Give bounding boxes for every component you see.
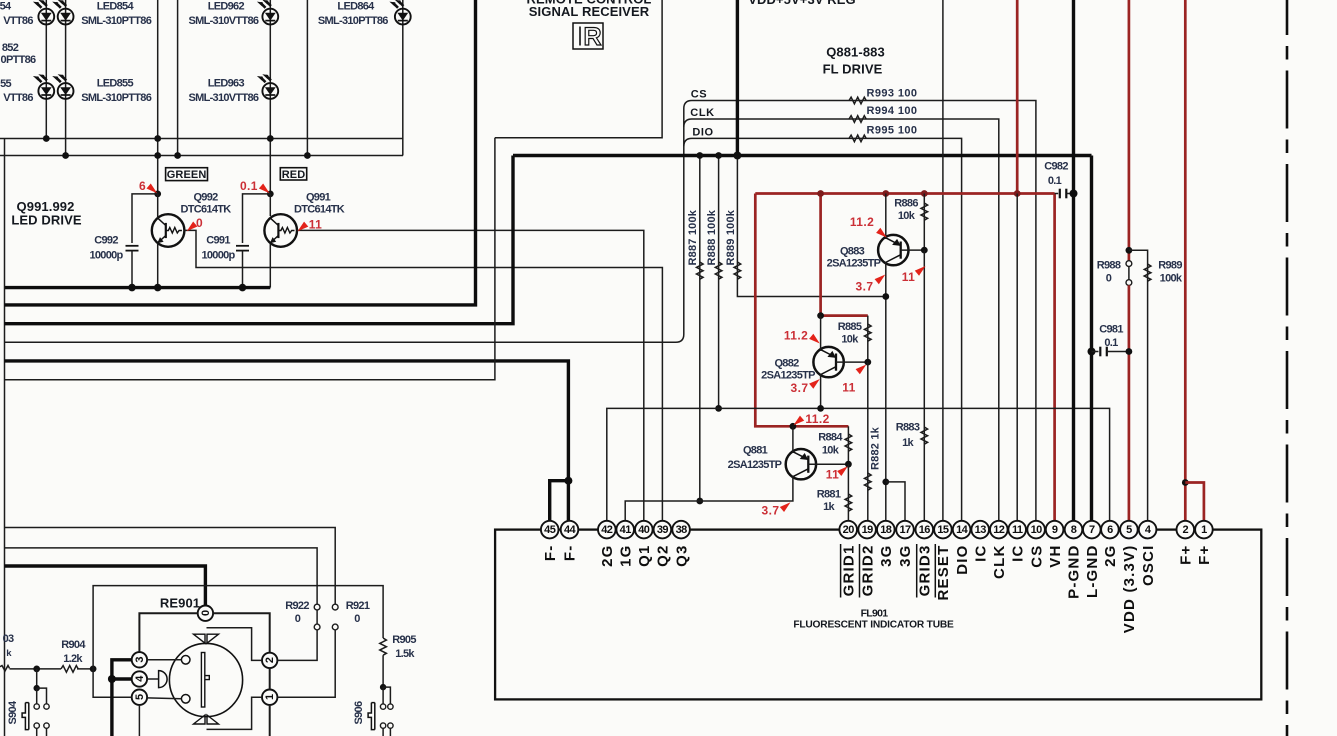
resistor R989 100k [1129, 250, 1148, 522]
svg-text:CLK: CLK [991, 545, 1008, 579]
encoder contact upper [181, 656, 190, 665]
pin 18 [877, 521, 895, 539]
pin 2 [1177, 521, 1195, 539]
encoder commutator bar [201, 653, 204, 708]
wire: node down to pin5 [93, 669, 132, 697]
svg-text:LED854: LED854 [97, 1, 135, 13]
svg-text:R884: R884 [818, 432, 843, 444]
svg-text:Q883: Q883 [840, 246, 865, 258]
wire: 11V dark red rail [755, 192, 1054, 195]
wire: main ground bus (thick) [513, 154, 1092, 157]
wire: pin3 to contact [147, 659, 181, 661]
svg-text:L-GND: L-GND [1084, 545, 1101, 599]
svg-text:7: 7 [1089, 524, 1095, 536]
resistor R988 0 (jumper) [1126, 261, 1132, 267]
svg-text:F+: F+ [1178, 545, 1195, 565]
wire: pin1 to R921 [277, 630, 335, 698]
node: junction line2 x307 [304, 152, 311, 159]
svg-text:DTC614TK: DTC614TK [294, 204, 345, 216]
svg-text:SIGNAL RECEIVER: SIGNAL RECEIVER [529, 4, 650, 19]
svg-text:GREEN: GREEN [167, 169, 207, 181]
wire: encoder pin0 feed (thick) [5, 566, 206, 606]
resistor R888 100k [718, 156, 720, 409]
svg-text:R905: R905 [392, 634, 416, 646]
svg-text:R995 100: R995 100 [867, 125, 918, 137]
svg-text:SML-310VTT86: SML-310VTT86 [188, 15, 258, 27]
svg-text:VDD+5V+3V REG: VDD+5V+3V REG [748, 0, 856, 7]
encoder rotation arrow top [194, 634, 219, 643]
svg-text:18: 18 [880, 524, 892, 536]
svg-text:11: 11 [309, 218, 323, 232]
svg-text:IC: IC [1009, 545, 1026, 562]
node: rail dot C991 [239, 284, 247, 292]
svg-text:40: 40 [638, 524, 650, 536]
wire: Q992 emitter to rail [157, 244, 159, 288]
wire: Q881 collector to 1G line [625, 476, 793, 522]
wire: Q883 base to R886 node [901, 249, 925, 251]
svg-text:CS: CS [1028, 545, 1045, 568]
wire: 3G hook to pin17 [886, 482, 905, 522]
encoder rotation arrow bottom [194, 715, 219, 724]
svg-text:R889 100k: R889 100k [725, 209, 737, 265]
svg-text:GRID3: GRID3 [917, 545, 934, 597]
wire: DIO/CLK/CS harness to left (bus line 4) [5, 101, 1036, 522]
svg-text:Q2: Q2 [655, 545, 672, 567]
wire: Q883 collector down to pin18 [885, 262, 887, 522]
svg-text:1: 1 [1201, 524, 1207, 536]
resistor R993 100 [849, 97, 866, 104]
svg-text:0: 0 [1106, 273, 1112, 285]
pin 6 [1101, 521, 1119, 539]
wire: LED962/963 column to Q991 [269, 0, 271, 194]
resistor R903 1k (clipped) [0, 666, 10, 672]
node: junction line1 x157 [154, 135, 161, 142]
node: dark red dot Q881 emitter [790, 423, 797, 430]
node: C981 right dot [1126, 348, 1133, 355]
svg-text:0: 0 [354, 613, 360, 625]
svg-text:SML-310PTT86: SML-310PTT86 [318, 15, 388, 27]
pin 40 [635, 521, 653, 539]
svg-text:0.1: 0.1 [1048, 175, 1062, 187]
svg-text:R883: R883 [896, 422, 920, 434]
svg-text:12: 12 [993, 524, 1005, 536]
wire: L-GND thick bus corner down to pin7 [1090, 156, 1093, 522]
svg-text:LED962: LED962 [208, 1, 245, 13]
node: R989 branch dot [1126, 247, 1133, 254]
svg-text:3G: 3G [878, 545, 895, 567]
wire: R903 to R904 [10, 668, 62, 670]
node: Q992 collector junction [154, 191, 161, 198]
wire: dark red Q882 feed horizontal [821, 314, 868, 317]
svg-text:11: 11 [1012, 524, 1023, 536]
encoder pin 2 [262, 653, 277, 668]
svg-text:Q881-883: Q881-883 [826, 45, 885, 60]
svg-text:11.2: 11.2 [805, 412, 829, 426]
svg-text:C982: C982 [1044, 161, 1068, 173]
svg-text:5: 5 [134, 694, 146, 700]
wire: pin2 to R922 [277, 630, 317, 661]
switch S906 [380, 684, 386, 690]
svg-text:16: 16 [919, 524, 931, 536]
wire: C991 to emitter rail [242, 251, 244, 288]
svg-text:SML-310VTT86: SML-310VTT86 [188, 92, 258, 104]
svg-text:LED864: LED864 [337, 1, 375, 13]
LED LED962 [257, 0, 278, 25]
resistor R887 100k [699, 156, 701, 502]
resistor R881 1k (base to pin20) [847, 464, 849, 522]
wire: pin1 contact L path [207, 697, 263, 729]
node: junction line2 x65 [62, 152, 69, 159]
pin 12 [990, 521, 1008, 539]
box: FL901 fluorescent indicator tube [495, 530, 1261, 700]
wire: VDD dark red to pin5 [1128, 285, 1131, 522]
svg-text:LED DRIVE: LED DRIVE [11, 213, 81, 228]
resistor R904 1.2k [61, 666, 78, 673]
LED LED855a (row2 left) [33, 74, 54, 99]
wire: thick branch to pins 3/4 [112, 660, 132, 736]
svg-text:OSCI: OSCI [1140, 545, 1157, 586]
wire: pin4 to cam [147, 678, 159, 680]
wire: LED common line 2 [0, 155, 403, 157]
wire: node up over to R905 [93, 586, 383, 669]
wire: Q883 emitter entry [885, 194, 887, 240]
wire: Q992 output to pin39 (Q2) [184, 230, 662, 521]
svg-text:0PTT86: 0PTT86 [1, 54, 37, 66]
node: Q883 collector/R889 dot [882, 293, 889, 300]
svg-text:15: 15 [937, 524, 949, 536]
svg-text:38: 38 [676, 524, 688, 536]
svg-text:44: 44 [564, 524, 577, 536]
resistor R905 1.5k [380, 638, 387, 655]
svg-text:RESET: RESET [935, 545, 952, 601]
svg-text:0: 0 [295, 613, 301, 625]
svg-text:11: 11 [842, 381, 856, 395]
pin 4 [1139, 521, 1157, 539]
node: dark red dot Q882 feed [817, 312, 824, 319]
switch S904 [36, 669, 38, 688]
wire: VDD 3.3V dark red from top [1128, 0, 1131, 261]
wire: bus line 2 (thick) with vertical riser x475 [5, 0, 476, 305]
svg-text:11: 11 [826, 468, 840, 482]
svg-text:10k: 10k [898, 210, 916, 222]
svg-text:1: 1 [264, 694, 276, 700]
resistor R882 1k (base to pin19) [867, 362, 869, 522]
svg-text:C991: C991 [206, 235, 230, 247]
wire: Q991 emitter to rail end [269, 244, 271, 288]
wire: C992 branch [132, 194, 158, 243]
resistor R883 1k (base to pin16) [923, 250, 925, 522]
svg-text:F+: F+ [1196, 545, 1213, 565]
encoder body circle [169, 643, 242, 716]
pin 5 [1120, 521, 1138, 539]
wire: pin5 down to edge [138, 705, 140, 736]
svg-text:6: 6 [139, 179, 146, 193]
box: remote control signal receiver [495, 0, 662, 138]
node: junction line1 x270 [267, 135, 274, 142]
label RED net box [280, 168, 306, 180]
svg-text:R886: R886 [894, 198, 918, 210]
node: R904/pin5 node dot [90, 666, 97, 673]
pin 45 [541, 521, 559, 539]
pin 42 [598, 521, 616, 539]
svg-text:LED855: LED855 [97, 78, 134, 90]
svg-text:9: 9 [1052, 524, 1058, 536]
wire: LED column A (LED854 pair left) [45, 0, 47, 139]
svg-text:F-: F- [562, 545, 579, 562]
wire: 2G line pin42 to pin6 [607, 408, 1110, 521]
svg-text:DIO: DIO [692, 127, 713, 139]
pin 38 [672, 521, 690, 539]
wire: LED column B (LED854 pair right) [65, 0, 67, 156]
svg-text:55: 55 [0, 78, 11, 90]
node: junction line2 x177 [174, 152, 181, 159]
svg-text:11.2: 11.2 [784, 329, 808, 343]
svg-text:0: 0 [196, 216, 203, 230]
svg-text:R922: R922 [285, 600, 309, 612]
encoder pin 0 [198, 606, 213, 621]
svg-text:2G: 2G [1102, 545, 1119, 567]
wire: bus line 3 (thick) riser x513 to main bus [5, 156, 514, 324]
svg-text:VDD (3.3V): VDD (3.3V) [1121, 545, 1138, 634]
wire: F- feed (thick) [5, 361, 569, 481]
svg-text:2SA1235TP: 2SA1235TP [827, 258, 881, 270]
svg-text:42: 42 [601, 524, 613, 536]
transistor Q883 2SA1235TP [878, 235, 908, 265]
svg-text:Q992: Q992 [193, 192, 218, 204]
label GREEN net box [166, 168, 208, 181]
wire: dark red drop to Q882 row [819, 194, 822, 316]
node: Q882 base dot [864, 359, 871, 366]
svg-text:2: 2 [264, 657, 276, 663]
wire: vertical x177 to line2 [177, 0, 179, 156]
pin 14 [953, 521, 971, 539]
wire: Q882 collector down to 2G line [820, 374, 822, 409]
svg-text:5: 5 [1126, 524, 1132, 536]
svg-text:CLK: CLK [690, 107, 714, 119]
wire: RESET line from top to pin15 [942, 0, 944, 522]
svg-text:39: 39 [657, 524, 669, 536]
pin 8 [1065, 521, 1083, 539]
LED LED853 (pair left, clipped label) [33, 0, 54, 25]
svg-text:2G: 2G [599, 545, 616, 567]
capacitor C991 [236, 245, 249, 247]
svg-text:03: 03 [3, 633, 14, 645]
svg-text:C981: C981 [1099, 324, 1123, 336]
wire: F- branch to pin45 [550, 481, 569, 522]
node: Q881 base dot [845, 461, 852, 468]
wire: P-GND thick from top to pin8 [1072, 0, 1075, 522]
wire: Q992 collector entry [157, 194, 159, 218]
svg-text:10: 10 [1031, 524, 1043, 536]
svg-text:2SA1235TP: 2SA1235TP [761, 370, 815, 382]
pin 44 [561, 521, 579, 539]
resistor R884 10k [847, 426, 849, 464]
wire: Q881 base to R884 node [808, 463, 848, 465]
svg-text:R885: R885 [838, 321, 862, 333]
svg-text:DTC614TK: DTC614TK [180, 204, 231, 216]
svg-text:SML-310PTT86: SML-310PTT86 [81, 92, 151, 104]
node: rail dot C992 [128, 284, 136, 292]
svg-text:F-: F- [542, 545, 559, 562]
svg-text:RED: RED [282, 169, 306, 181]
wire: pin0 to pin3 (medium) [139, 613, 197, 652]
wire: pin2-pin1-down (medium) [269, 668, 271, 689]
node: junction line1 x46 [43, 135, 50, 142]
svg-text:3.7: 3.7 [856, 280, 874, 294]
encoder contact lower [181, 695, 190, 704]
resistor R995 100 [849, 135, 866, 142]
svg-text:VH: VH [1047, 545, 1064, 568]
node: dark red dot x924 [921, 190, 928, 197]
svg-text:54: 54 [0, 1, 12, 13]
wire: Q882 base to R885 node [836, 361, 868, 363]
wire: C992 to emitter rail [131, 251, 133, 288]
resistor R889 100k [737, 156, 885, 297]
svg-text:10000p: 10000p [201, 250, 235, 262]
node: C982 right dot [1070, 190, 1078, 198]
pin 7 [1083, 521, 1101, 539]
svg-text:Q881: Q881 [743, 445, 768, 457]
svg-text:10000p: 10000p [89, 250, 123, 262]
svg-text:FL901: FL901 [861, 608, 889, 620]
encoder pin 5 [132, 690, 147, 705]
svg-text:13: 13 [975, 524, 987, 536]
svg-text:Q3: Q3 [673, 545, 690, 567]
wire: VH dark red to pin9 [1053, 194, 1056, 522]
svg-text:SML-310PTT86: SML-310PTT86 [81, 15, 151, 27]
svg-text:1G: 1G [617, 545, 634, 567]
pin 11 [1008, 521, 1026, 539]
pin 10 [1027, 521, 1045, 539]
node: bus dot x737 [733, 152, 741, 160]
wire: IC pin11 line [1016, 194, 1018, 522]
node: rail dot Q992 emitter [154, 284, 162, 292]
pin 1 [1195, 521, 1213, 539]
capacitor C982 0.1 [1055, 193, 1059, 195]
node: Q883 base dot [921, 247, 928, 254]
svg-text:R882 1k: R882 1k [870, 426, 882, 470]
svg-text:1.2k: 1.2k [63, 653, 83, 665]
svg-text:10k: 10k [822, 445, 840, 457]
svg-text:Q882: Q882 [774, 358, 799, 370]
svg-text:14: 14 [956, 524, 969, 536]
svg-text:R921: R921 [346, 600, 370, 612]
svg-text:1k: 1k [823, 501, 835, 513]
svg-text:DIO: DIO [954, 545, 971, 575]
svg-text:3.7: 3.7 [762, 504, 780, 518]
wire: Q991 output to pin40 (Q1) [297, 230, 644, 521]
svg-text:FL DRIVE: FL DRIVE [823, 62, 883, 77]
wire: vertical x307 to line2 [306, 0, 308, 156]
node: thick dot pin4 branch [108, 675, 116, 683]
pin 16 [916, 521, 934, 539]
svg-text:852: 852 [2, 42, 19, 54]
encoder pin 1 [262, 690, 277, 705]
svg-text:S906: S906 [353, 701, 365, 724]
svg-text:P-GND: P-GND [1066, 545, 1083, 599]
wire: left page bus vertical [4, 139, 6, 736]
node: dark red dot x1017 [1014, 190, 1021, 197]
svg-text:VTT86: VTT86 [3, 15, 33, 27]
wire: emitter ground rail (thick) [5, 286, 271, 289]
svg-text:11: 11 [902, 270, 916, 284]
node: F+ split dot [1182, 479, 1189, 486]
svg-text:R881: R881 [817, 489, 841, 501]
LED LED864 [389, 0, 410, 25]
node: dark red dot x820 [817, 190, 824, 197]
svg-text:Q1: Q1 [636, 545, 653, 567]
resistor R885 10k [867, 316, 869, 363]
capacitor C992 [126, 245, 139, 247]
pin 41 [616, 521, 634, 539]
transistor Q881 2SA1235TP [786, 449, 816, 479]
symbol: remote receiver R mark [573, 23, 603, 49]
svg-text:41: 41 [620, 524, 632, 536]
resistor R922 0 (jumper) [314, 604, 320, 610]
wire: F+ dark red from top [1184, 0, 1187, 522]
svg-text:0.1: 0.1 [240, 179, 258, 193]
transistor Q882 2SA1235TP [813, 347, 843, 377]
wire: dark red drop to Q881 row [755, 194, 848, 427]
wire: Q991 collector entry [269, 194, 271, 216]
node: dark red dot x885 [882, 190, 889, 197]
svg-text:LED963: LED963 [208, 78, 245, 90]
pin 39 [654, 521, 672, 539]
svg-text:1.5k: 1.5k [395, 648, 415, 660]
wire: R922 feed line [5, 548, 318, 605]
wire: dark red from top x1017 [1016, 0, 1019, 194]
svg-text:R: R [583, 23, 601, 51]
wire: F- to pin44 [567, 481, 570, 522]
svg-text:R888 100k: R888 100k [706, 209, 718, 265]
LED LED963 [257, 74, 278, 99]
resistor R921 0 (jumper) [332, 604, 338, 610]
node: Q991 collector junction [267, 191, 274, 198]
wire: C991 branch [243, 194, 271, 243]
svg-text:VTT86: VTT86 [3, 92, 33, 104]
svg-text:FLUORESCENT INDICATOR TUBE: FLUORESCENT INDICATOR TUBE [793, 620, 954, 631]
svg-text:RE901: RE901 [160, 596, 200, 611]
resistor R886 10k [923, 194, 925, 251]
capacitor C981 0.1 [1092, 351, 1099, 353]
svg-text:11.2: 11.2 [850, 215, 874, 229]
svg-text:CS: CS [691, 89, 707, 101]
svg-text:0.1: 0.1 [1104, 337, 1118, 349]
transistor Q992 DTC614TK [152, 214, 185, 247]
pin 15 [934, 521, 952, 539]
svg-text:2: 2 [1183, 524, 1189, 536]
wire: DIO entry curve + line to pin14 [684, 138, 962, 521]
svg-text:GRID2: GRID2 [859, 545, 876, 597]
svg-text:Q991: Q991 [306, 192, 331, 204]
node: 2G dots [718, 407, 720, 409]
wire: pin5 to contact [147, 697, 181, 700]
svg-text:S904: S904 [7, 700, 19, 724]
svg-text:20: 20 [843, 524, 855, 536]
LED LED854b (pair right) [52, 0, 73, 25]
svg-text:GRID1: GRID1 [840, 545, 857, 597]
transistor Q991 DTC614TK [264, 214, 297, 247]
svg-text:R994 100: R994 100 [867, 105, 918, 117]
svg-text:6: 6 [1107, 524, 1113, 536]
wire: Q881 emitter entry [792, 426, 794, 453]
node: junction line2 x157 [154, 152, 161, 159]
wire: F+ branch to pin1 [1185, 483, 1204, 522]
svg-text:100k: 100k [1160, 273, 1183, 285]
node: F- split dot [564, 477, 572, 485]
svg-text:R989: R989 [1158, 260, 1182, 272]
encoder cam D [159, 671, 168, 688]
